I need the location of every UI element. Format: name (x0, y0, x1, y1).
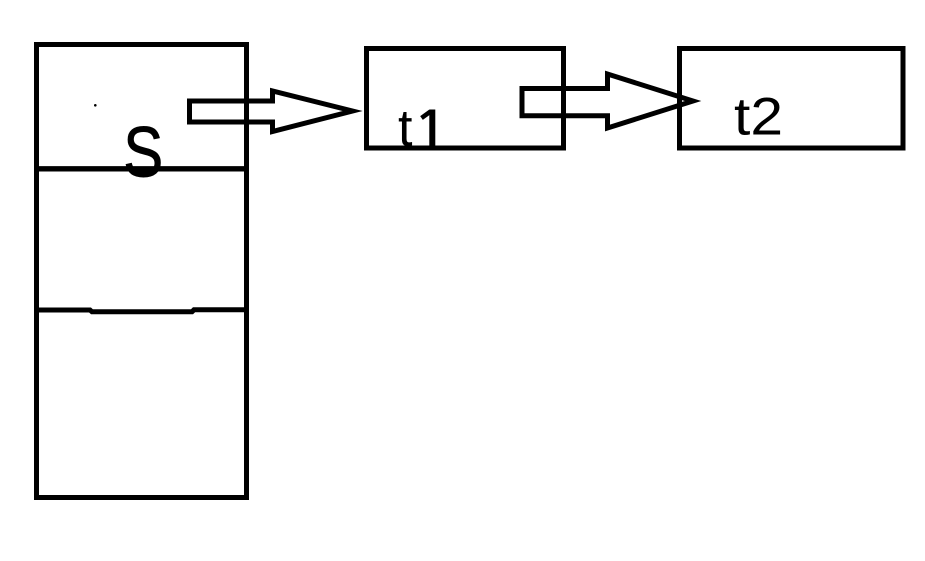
svg-text:t2: t2 (734, 88, 783, 147)
svg-text:S: S (123, 113, 163, 192)
svg-text:t: t (398, 100, 413, 158)
